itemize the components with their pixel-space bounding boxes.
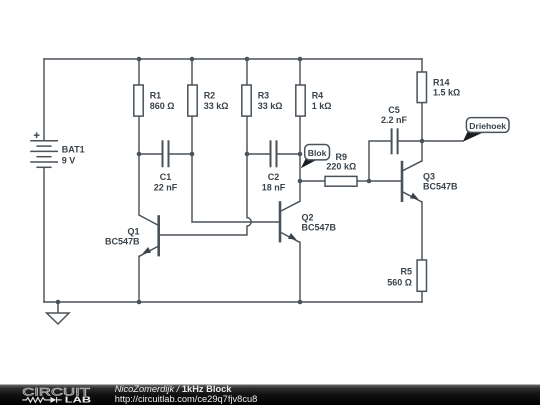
label R5 value bbox=[387, 267, 412, 288]
node Q3 base / R9 right / C5 bbox=[367, 179, 372, 184]
label Q2 type bbox=[302, 212, 337, 232]
wire left battery column bottom bbox=[43, 167, 45, 302]
transistor Q1 bbox=[139, 215, 159, 256]
node C2 left / R3 bbox=[245, 152, 250, 157]
wire left battery column top bbox=[43, 59, 45, 141]
resistor R2 bbox=[188, 85, 197, 116]
wire R3 top lead bbox=[246, 59, 248, 85]
node R1 top bbox=[137, 57, 142, 62]
svg-text:R4: R4 bbox=[312, 91, 324, 101]
svg-text:1.5 kΩ: 1.5 kΩ bbox=[433, 88, 460, 98]
svg-text:22 nF: 22 nF bbox=[154, 183, 178, 193]
resistor R14 bbox=[417, 72, 426, 103]
node R3 top bbox=[245, 57, 250, 62]
svg-text:BC547B: BC547B bbox=[423, 181, 458, 191]
svg-text:Q1: Q1 bbox=[127, 226, 139, 236]
wire R9 left lead bbox=[300, 180, 325, 182]
resistor R4 bbox=[296, 85, 305, 116]
flag Driehoek bbox=[463, 118, 509, 142]
node Q1 emitter ground bbox=[137, 300, 142, 305]
label R3 value bbox=[258, 91, 283, 111]
resistor R1 bbox=[134, 85, 143, 116]
svg-text:860 Ω: 860 Ω bbox=[150, 101, 175, 111]
capacitor C5 bbox=[392, 128, 398, 154]
svg-text:C1: C1 bbox=[160, 172, 172, 182]
label R2 value bbox=[204, 91, 229, 111]
wire bottom rail bbox=[44, 301, 422, 303]
svg-text:NicoZomerdijk / 1kHz Block: NicoZomerdijk / 1kHz Block bbox=[115, 384, 233, 394]
svg-text:C2: C2 bbox=[268, 172, 280, 182]
label C1 value bbox=[154, 172, 178, 192]
wire C5 right to output node bbox=[398, 140, 422, 142]
wire R14 bottom lead bbox=[421, 102, 423, 141]
svg-text:http://circuitlab.com/ce29q7fj: http://circuitlab.com/ce29q7fjv8cu8 bbox=[115, 394, 258, 404]
node C1 left / Q1 collector bbox=[137, 152, 142, 157]
svg-text:R2: R2 bbox=[204, 91, 216, 101]
wire R3 bottom to C2 node bbox=[246, 116, 248, 154]
svg-text:LAB: LAB bbox=[65, 395, 92, 404]
svg-text:33 kΩ: 33 kΩ bbox=[204, 101, 229, 111]
svg-text:9 V: 9 V bbox=[62, 156, 76, 166]
wire top rail bbox=[44, 58, 422, 60]
label R9 value bbox=[326, 152, 356, 171]
node C1 right / R2 bbox=[190, 152, 195, 157]
svg-text:560 Ω: 560 Ω bbox=[387, 278, 412, 288]
svg-text:R14: R14 bbox=[433, 78, 450, 88]
capacitor C2 bbox=[247, 140, 300, 167]
label Q1 type bbox=[105, 226, 140, 246]
wire R4 top lead bbox=[299, 59, 301, 85]
label BAT1 value bbox=[62, 144, 85, 165]
wire R9 right lead bbox=[357, 180, 369, 182]
svg-text:R1: R1 bbox=[150, 91, 162, 101]
wire R14 top lead bbox=[421, 59, 423, 72]
node Q2 collector / R9 left bbox=[298, 179, 303, 184]
svg-text:BC547B: BC547B bbox=[302, 222, 337, 232]
node R2 top bbox=[190, 57, 195, 62]
wire Q3 collector bbox=[421, 141, 423, 161]
capacitor C1 bbox=[139, 140, 192, 167]
wire C5 left loop bbox=[369, 141, 392, 181]
wire R2 node down to Q2 base row bbox=[192, 154, 279, 222]
svg-text:2.2 nF: 2.2 nF bbox=[381, 115, 408, 125]
label C2 value bbox=[262, 172, 286, 192]
svg-text:Q3: Q3 bbox=[423, 171, 435, 181]
resistor R3 bbox=[242, 85, 251, 116]
node Q2 emitter ground bbox=[298, 300, 303, 305]
flag Blok bbox=[301, 145, 330, 169]
node R4 top bbox=[298, 57, 303, 62]
footer logo resistor-diode art bbox=[22, 397, 61, 403]
label R4 value bbox=[312, 91, 332, 111]
wire Q1 collector column bbox=[138, 154, 140, 215]
transistor Q3 bbox=[402, 161, 422, 202]
label R14 value bbox=[433, 78, 460, 98]
transistor Q2 bbox=[280, 201, 300, 242]
svg-text:R3: R3 bbox=[258, 91, 270, 101]
svg-text:Blok: Blok bbox=[308, 148, 327, 158]
svg-text:18 nF: 18 nF bbox=[262, 183, 286, 193]
node Q3 collector / R14 / C5 output bbox=[420, 139, 425, 144]
wire Q1 emitter column bbox=[138, 256, 140, 302]
wire output node to Driehoek bbox=[422, 140, 463, 142]
svg-text:C5: C5 bbox=[388, 105, 400, 115]
wire R2 top lead bbox=[191, 59, 193, 85]
resistor R5 bbox=[417, 260, 426, 291]
svg-text:220 kΩ: 220 kΩ bbox=[326, 161, 356, 171]
battery BAT1 bbox=[30, 132, 58, 167]
svg-text:1 kΩ: 1 kΩ bbox=[312, 101, 332, 111]
label R1 value bbox=[150, 91, 175, 111]
svg-text:Driehoek: Driehoek bbox=[469, 121, 506, 131]
wire R2 bottom to C1 node bbox=[191, 116, 193, 154]
resistor R9 bbox=[325, 176, 357, 186]
svg-text:Q2: Q2 bbox=[302, 212, 314, 222]
svg-text:BC547B: BC547B bbox=[105, 236, 140, 246]
wire R4 bottom through C2/R9 nodes to Q2 collector bbox=[299, 116, 301, 201]
svg-text:33 kΩ: 33 kΩ bbox=[258, 101, 283, 111]
label Q3 type bbox=[423, 171, 458, 191]
label C5 value bbox=[381, 105, 408, 125]
wire Q2 emitter column bbox=[299, 242, 301, 302]
footer bar bbox=[0, 385, 540, 405]
wire R1 top lead bbox=[138, 59, 140, 85]
wire R5 bottom lead bbox=[421, 292, 423, 303]
ground bbox=[47, 302, 69, 324]
wire Q3 base lead bbox=[369, 180, 401, 182]
wire R3 node down with hop over Q2 base wire bbox=[160, 154, 252, 235]
svg-text:R5: R5 bbox=[400, 267, 412, 277]
wire R1 bottom to C1 node bbox=[138, 116, 140, 154]
node ground junction bbox=[56, 300, 61, 305]
wire Q3 emitter to R5 bbox=[421, 202, 423, 260]
node C2 right / R4 bbox=[298, 152, 303, 157]
svg-text:BAT1: BAT1 bbox=[62, 144, 85, 154]
